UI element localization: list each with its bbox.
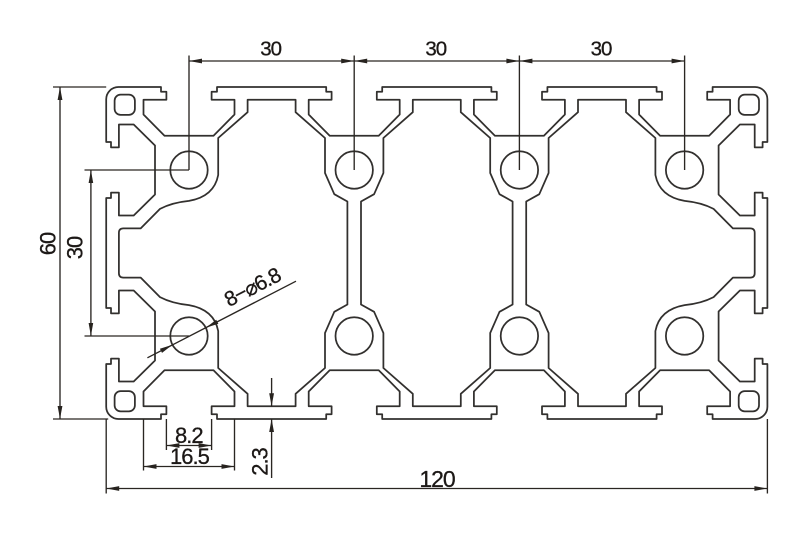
svg-text:2.3: 2.3	[248, 447, 273, 475]
bottom-left corner screw pocket	[115, 391, 135, 411]
leader 8-dia6.8 pointing at bore hole	[147, 281, 296, 358]
bore hole 1 (dia 6.8)	[170, 151, 207, 188]
dimension 16.5 (slot inner width)	[143, 419, 145, 471]
internal cavity right (wraps column-4 bosses, T to right wall)	[526, 100, 755, 407]
internal cavity middle (between bore columns 2 and 3)	[361, 100, 513, 407]
dimension 30 (left, between hole rows)	[85, 169, 190, 171]
dimension 2.3 (wall thickness)	[271, 378, 273, 406]
profile outer outline with 12 T-slots	[106, 87, 767, 419]
dimension 30 extension lines (hole columns)	[188, 56, 190, 171]
bore hole 8 (dia 6.8)	[666, 317, 703, 354]
bore hole 6 (dia 6.8)	[336, 317, 373, 354]
dimension 120 (overall width)	[105, 419, 107, 494]
bore hole 2 (dia 6.8)	[336, 151, 373, 188]
svg-text:60: 60	[36, 232, 61, 255]
svg-text:120: 120	[419, 466, 455, 492]
svg-text:16.5: 16.5	[170, 444, 210, 469]
bore hole 5 (dia 6.8)	[170, 317, 207, 354]
dimension 30 (top, between columns 1-2)	[189, 60, 354, 62]
svg-text:30: 30	[425, 38, 446, 61]
dimension 30 (top, between columns 2-3)	[354, 60, 519, 62]
bore hole 3 (dia 6.8)	[501, 151, 538, 188]
bottom-right corner screw pocket	[739, 391, 759, 411]
svg-text:30: 30	[260, 38, 281, 61]
svg-text:30: 30	[63, 236, 88, 259]
bore hole 4 (dia 6.8)	[666, 151, 703, 188]
dimension 60 (left overall height)	[53, 86, 106, 88]
svg-text:30: 30	[591, 38, 612, 61]
internal cavity left (wraps column-1 bosses, T to left wall)	[119, 100, 348, 407]
bore hole 7 (dia 6.8)	[501, 317, 538, 354]
top-right corner screw pocket	[739, 95, 759, 115]
dimension 8.2 (slot mouth width)	[165, 419, 167, 450]
dimension 30 (top, between columns 3-4)	[519, 60, 684, 62]
top-left corner screw pocket	[115, 95, 135, 115]
svg-text:8−⌀6.8: 8−⌀6.8	[221, 264, 285, 312]
